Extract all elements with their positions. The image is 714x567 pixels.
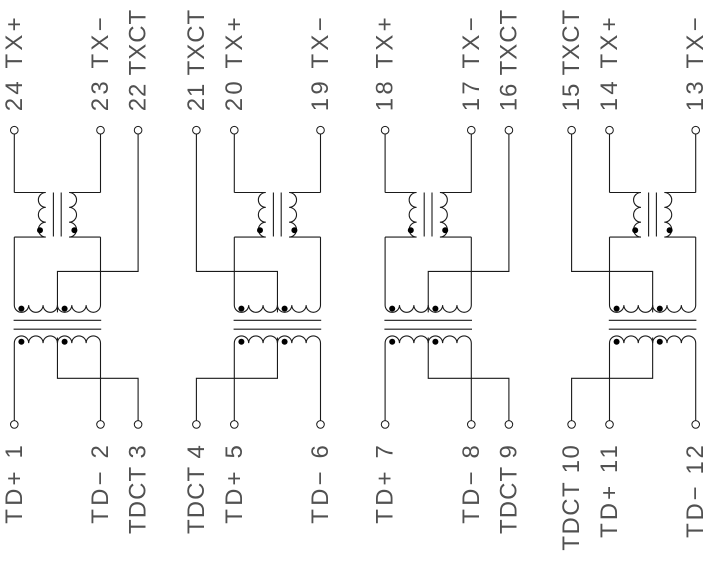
svg-text:TD− 12: TD− 12 [682, 445, 709, 538]
svg-text:20 TX+: 20 TX+ [221, 17, 248, 111]
svg-text:TD+ 7: TD+ 7 [372, 445, 399, 524]
svg-text:15 TXCT: 15 TXCT [558, 9, 585, 111]
svg-text:TDCT 3: TDCT 3 [125, 445, 152, 534]
svg-text:19 TX−: 19 TX− [307, 17, 334, 111]
svg-text:18 TX+: 18 TX+ [372, 17, 399, 111]
svg-text:TDCT 10: TDCT 10 [558, 445, 585, 550]
svg-text:14 TX+: 14 TX+ [596, 17, 623, 111]
svg-text:TDCT 9: TDCT 9 [495, 445, 522, 534]
svg-text:24 TX+: 24 TX+ [1, 17, 28, 111]
svg-text:21 TXCT: 21 TXCT [183, 9, 210, 111]
svg-text:23 TX−: 23 TX− [87, 17, 114, 111]
svg-text:17 TX−: 17 TX− [458, 17, 485, 111]
svg-text:22 TXCT: 22 TXCT [125, 9, 152, 111]
svg-text:TD− 2: TD− 2 [87, 445, 114, 524]
svg-text:TD+ 11: TD+ 11 [596, 445, 623, 538]
svg-text:TD− 6: TD− 6 [307, 445, 334, 524]
svg-text:13 TX−: 13 TX− [682, 17, 709, 111]
svg-text:TD+ 5: TD+ 5 [221, 445, 248, 524]
svg-text:TD+ 1: TD+ 1 [1, 445, 28, 524]
svg-text:16 TXCT: 16 TXCT [495, 9, 522, 111]
svg-text:TDCT 4: TDCT 4 [183, 445, 210, 534]
svg-text:TD− 8: TD− 8 [458, 445, 485, 524]
